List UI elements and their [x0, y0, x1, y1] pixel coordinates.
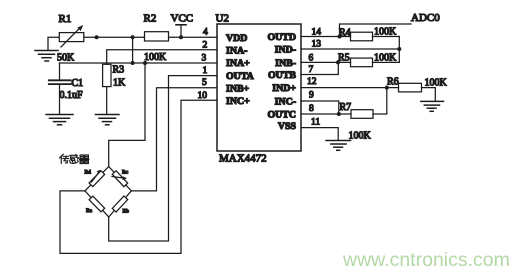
svg-text:INC-: INC- [275, 97, 296, 108]
op-amp IC U2 box [217, 24, 301, 151]
wire INB- (pin6) [301, 61, 351, 63]
svg-text:VSS: VSS [278, 121, 297, 132]
svg-text:0.1uF: 0.1uF [60, 90, 84, 101]
resistor R7 [351, 110, 373, 119]
svg-text:IND+: IND+ [272, 83, 296, 94]
svg-text:MAX4472: MAX4472 [219, 153, 267, 165]
node dot pin14 [338, 35, 342, 39]
svg-text:100K: 100K [374, 27, 397, 38]
wire R4/R5 junction vertical [398, 37, 400, 63]
svg-text:100K: 100K [349, 130, 372, 141]
svg-text:U2: U2 [216, 13, 229, 25]
wire OUTA (pin1) to bridge bottom [109, 76, 217, 241]
svg-text:IND-: IND- [275, 45, 296, 56]
node dot bridge feed [143, 61, 147, 65]
wire INA+ (pin3) [60, 62, 218, 64]
svg-text:OUTC: OUTC [267, 109, 296, 120]
svg-text:INA-: INA- [226, 46, 247, 57]
wire OUTC (pin8) [301, 113, 351, 115]
wire R4 right [373, 36, 400, 38]
svg-text:10: 10 [198, 91, 208, 101]
ground (C1) [46, 115, 73, 125]
svg-text:R7: R7 [340, 102, 352, 113]
svg-text:7: 7 [309, 65, 314, 75]
node dot B (feed to INA+) [131, 35, 135, 39]
svg-text:www.cntronics.com: www.cntronics.com [342, 249, 510, 271]
node dot pin8/pin9 [337, 112, 341, 116]
svg-text:VCC: VCC [171, 13, 194, 25]
svg-text:Rb: Rb [123, 209, 130, 215]
wire OUTD (pin14) [301, 36, 351, 38]
svg-text:R5: R5 [338, 52, 350, 63]
svg-text:OUTA: OUTA [226, 71, 255, 82]
resistor R3 [103, 64, 111, 86]
svg-text:5: 5 [202, 78, 207, 88]
svg-text:Ra: Ra [86, 208, 93, 214]
wire VSS (pin11) to ground [301, 128, 338, 141]
svg-text:3: 3 [202, 53, 207, 63]
svg-text:VDD: VDD [226, 33, 247, 44]
wire bridge top to INA+ node [109, 63, 145, 167]
svg-text:R4: R4 [339, 27, 351, 38]
capacitor C1 [49, 63, 71, 115]
svg-text:INA+: INA+ [226, 58, 250, 69]
wire IND- (pin13) [301, 48, 399, 50]
svg-text:50K: 50K [57, 53, 75, 64]
svg-text:2: 2 [203, 41, 208, 51]
svg-text:Rc: Rc [122, 170, 129, 176]
resistor R1 [59, 25, 84, 47]
ground (VSS) [326, 141, 351, 151]
resistor R2 [145, 32, 169, 41]
svg-text:OUTB: OUTB [268, 70, 296, 81]
wire INC- (pin9) [301, 101, 339, 114]
resistor R4 [351, 32, 373, 41]
svg-text:INB+: INB+ [226, 84, 250, 95]
resistor R5 [351, 58, 373, 67]
node dot A (R1 right) [95, 35, 99, 39]
wire OUTB (pin7) [301, 62, 338, 74]
node dot R6 junction [385, 86, 389, 90]
label sensor (chuanganqi) drawn glyphs [60, 154, 89, 163]
bridge resistor Rd (top-left) [89, 171, 105, 187]
svg-text:R2: R2 [144, 13, 157, 25]
svg-text:OUTD: OUTD [267, 32, 296, 43]
node dot pin13 junction [397, 47, 401, 51]
svg-text:INC+: INC+ [226, 96, 250, 107]
svg-text:1K: 1K [113, 78, 126, 89]
arrow on Rd [92, 170, 101, 182]
svg-text:12: 12 [307, 77, 317, 87]
svg-text:R6: R6 [387, 76, 399, 87]
svg-text:1: 1 [203, 66, 208, 76]
svg-text:100K: 100K [425, 77, 448, 88]
wire R5 right [373, 61, 400, 63]
svg-text:13: 13 [312, 40, 322, 50]
wire VDD net top [84, 36, 145, 38]
arrow on Rc [112, 176, 127, 180]
ground (R1) [35, 51, 58, 62]
svg-text:Rd: Rd [85, 170, 92, 176]
bridge resistor Ra (bottom-left) [89, 196, 105, 212]
wire INB+ (pin5) to bridge right [131, 88, 217, 191]
node dot on INA+ [131, 61, 135, 65]
svg-text:R3: R3 [113, 65, 125, 76]
wire INC+ (pin10) to bridge left [60, 100, 217, 253]
svg-text:R1: R1 [59, 13, 72, 25]
wire B down to INA+ [132, 37, 134, 63]
svg-text:100K: 100K [144, 52, 167, 63]
ground (R6) [421, 101, 444, 111]
svg-text:14: 14 [312, 27, 322, 37]
node dot pin6/pin7 [336, 60, 340, 64]
svg-text:ADC0: ADC0 [411, 12, 440, 24]
wire R7 right up to R6 node [373, 88, 387, 114]
wire R1 left to ground [48, 37, 59, 50]
svg-text:100K: 100K [374, 52, 397, 63]
svg-text:4: 4 [203, 28, 208, 38]
wire R3 to ground [106, 87, 108, 115]
wire R6 right to ground [422, 88, 436, 102]
node dot VCC [179, 35, 183, 39]
svg-text:8: 8 [309, 104, 314, 114]
bridge resistor Rc (top-right) [112, 171, 127, 187]
svg-text:9: 9 [309, 90, 314, 100]
sensor bridge arms [85, 167, 131, 218]
ground (R3) [96, 115, 120, 125]
wire ADC0 [340, 24, 412, 37]
resistor R6 [399, 83, 422, 92]
wire IND+ (pin12) [301, 87, 399, 89]
wire INA- (pin2) [107, 50, 217, 65]
power VCC symbol [176, 25, 186, 37]
bridge resistor Rb (bottom-right) [112, 196, 127, 212]
svg-text:C1: C1 [72, 78, 84, 89]
svg-text:INB-: INB- [275, 58, 296, 69]
svg-text:11: 11 [311, 117, 320, 127]
